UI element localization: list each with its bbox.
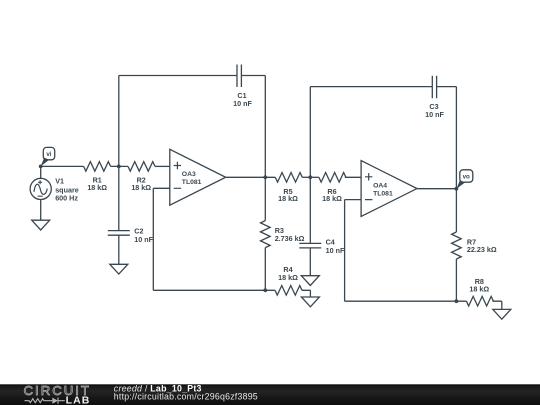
svg-text:10 nF: 10 nF: [425, 110, 444, 119]
svg-text:18 kΩ: 18 kΩ: [278, 194, 298, 203]
svg-text:18 kΩ: 18 kΩ: [87, 183, 107, 192]
svg-text:18 kΩ: 18 kΩ: [278, 273, 298, 282]
svg-text:600 Hz: 600 Hz: [55, 193, 78, 202]
svg-text:2.736 kΩ: 2.736 kΩ: [275, 234, 305, 243]
svg-text:22.23 kΩ: 22.23 kΩ: [467, 245, 497, 254]
svg-text:10 nF: 10 nF: [233, 99, 252, 108]
svg-text:OA3: OA3: [182, 171, 196, 178]
svg-text:OA4: OA4: [373, 183, 387, 190]
svg-text:V1: V1: [55, 177, 64, 186]
svg-text:18 kΩ: 18 kΩ: [131, 183, 151, 192]
svg-text:vi: vi: [46, 151, 51, 158]
svg-text:18 kΩ: 18 kΩ: [469, 285, 489, 294]
svg-text:TL081: TL081: [373, 190, 393, 197]
svg-text:TL081: TL081: [182, 179, 202, 186]
svg-text:10 nF: 10 nF: [134, 235, 153, 244]
svg-text:10 nF: 10 nF: [326, 246, 345, 255]
svg-text:18 kΩ: 18 kΩ: [322, 194, 342, 203]
svg-text:LAB: LAB: [66, 394, 91, 405]
svg-text:http://circuitlab.com/cr296q6z: http://circuitlab.com/cr296q6zf3895: [114, 392, 258, 402]
svg-text:vo: vo: [463, 174, 470, 181]
